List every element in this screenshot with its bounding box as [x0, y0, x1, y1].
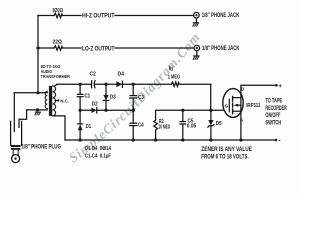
wire plug sleeve lead	[19, 110, 27, 128]
svg-text:C3: C3	[138, 95, 144, 101]
svg-text:D1: D1	[86, 124, 92, 130]
diode D4	[116, 81, 122, 87]
node D3 top	[104, 83, 107, 86]
node lo-z branch	[36, 46, 39, 49]
svg-text:D5: D5	[216, 121, 222, 127]
phone jack J2	[194, 45, 200, 51]
node middle rail end	[132, 109, 135, 112]
capacitor C5	[182, 110, 184, 121]
diode D1	[79, 110, 81, 124]
wire C2 to D4	[95, 83, 116, 85]
svg-text:1/8″ PHONE PLUG: 1/8″ PHONE PLUG	[22, 144, 62, 150]
svg-text:LO-Z OUTPUT: LO-Z OUTPUT	[82, 45, 115, 52]
svg-text:D1-D4 IN914: D1-D4 IN914	[85, 146, 111, 152]
N.C. tap	[55, 100, 58, 102]
phone plug collar	[11, 145, 20, 147]
node primary top	[36, 91, 39, 94]
svg-text:SWITCH: SWITCH	[265, 121, 281, 127]
ground under J1	[193, 22, 198, 24]
svg-text:C1-C4 0.1μF: C1-C4 0.1μF	[85, 154, 111, 160]
node D5 top	[209, 109, 212, 112]
svg-text:820Ω: 820Ω	[53, 8, 64, 14]
node ground tap	[36, 108, 39, 111]
svg-text:+: +	[278, 83, 282, 90]
wire lo-z right	[115, 47, 194, 49]
source stub	[233, 110, 241, 112]
ground under J2	[194, 55, 199, 57]
drain lead wire to +	[241, 85, 276, 111]
svg-text:C4: C4	[138, 123, 144, 129]
resistor R2	[154, 110, 158, 140]
svg-text:N.C.: N.C.	[60, 98, 69, 104]
svg-text:ON/OFF: ON/OFF	[265, 113, 280, 119]
phone plug neck	[13, 149, 18, 154]
svg-text:R1: R1	[169, 67, 174, 73]
svg-text:1 MEG: 1 MEG	[168, 75, 181, 81]
phone plug body	[11, 121, 22, 145]
node C3 top	[132, 83, 135, 86]
wire rail corner down to gate rail	[210, 84, 212, 110]
node D1 bottom	[79, 138, 82, 141]
top rail wire	[57, 83, 91, 85]
phone plug tip ball	[12, 155, 20, 163]
svg-text:1/8″ PHONE JACK: 1/8″ PHONE JACK	[202, 45, 240, 52]
left bus vertical wire	[37, 16, 39, 94]
svg-text:HI-Z OUTPUT: HI-Z OUTPUT	[82, 12, 115, 19]
svg-text:D4: D4	[118, 71, 125, 77]
node C5 bottom	[181, 138, 184, 141]
svg-text:C2: C2	[90, 72, 96, 78]
middle rail wire	[80, 109, 91, 111]
svg-text:D2: D2	[92, 101, 98, 107]
node C1 bottom	[79, 109, 82, 112]
resistor R1	[171, 82, 210, 86]
svg-text:TRANSFORMER: TRANSFORMER	[41, 74, 71, 80]
svg-text:D: D	[241, 86, 245, 91]
transformer T1 core	[49, 86, 52, 116]
phone jack J1	[194, 12, 200, 18]
svg-text:S: S	[240, 117, 243, 122]
wire D4 to R1	[122, 83, 171, 85]
capacitor C2	[91, 81, 93, 88]
svg-text:22Ω: 22Ω	[53, 39, 63, 45]
transformer T1 primary coil	[45, 91, 47, 108]
node C4 bottom	[132, 138, 135, 141]
body stub with arrow	[238, 104, 241, 106]
capacitor C4	[132, 110, 134, 123]
wire primary bottom lead	[27, 109, 48, 111]
gate bar	[228, 99, 230, 112]
node D3 bottom	[104, 109, 107, 112]
svg-text:RECORDER: RECORDER	[265, 106, 287, 112]
node + terminal	[275, 84, 278, 87]
resistor 820 ohm	[54, 13, 81, 17]
node C5 top	[181, 109, 184, 112]
wire hi-z right	[115, 15, 194, 17]
node D5 bottom	[209, 138, 212, 141]
svg-text:10 MEG: 10 MEG	[158, 125, 170, 131]
node source bottom	[239, 138, 242, 141]
wire secondary bottom lead	[54, 116, 65, 140]
diode D3	[105, 84, 107, 95]
svg-text:G: G	[225, 103, 229, 108]
svg-text:-: -	[278, 137, 280, 144]
node - terminal	[275, 139, 278, 142]
node C1 top	[79, 83, 82, 86]
zener diode D5	[210, 110, 212, 120]
mosfet Q1 IRF511	[223, 89, 243, 118]
svg-text:ZENER IS ANY VALUE: ZENER IS ANY VALUE	[201, 147, 252, 153]
chassis ground under primary	[35, 111, 40, 113]
capacitor C3	[132, 84, 134, 95]
svg-text:D3: D3	[110, 95, 116, 101]
svg-text:1/8″ PHONE JACK: 1/8″ PHONE JACK	[202, 12, 240, 19]
wire primary top lead	[14, 92, 47, 94]
svg-text:IRF511: IRF511	[246, 103, 260, 109]
diode D2	[91, 108, 96, 114]
capacitor C1	[79, 84, 81, 94]
svg-text:TO TAPE: TO TAPE	[265, 99, 282, 105]
svg-text:0.05: 0.05	[187, 124, 197, 130]
wire hi-z left	[38, 15, 54, 17]
source lead wire	[240, 111, 242, 140]
wire secondary top to rail	[55, 84, 57, 86]
gate rail wire	[156, 109, 223, 111]
node R2 bottom	[154, 138, 157, 141]
transformer T1 secondary coil	[53, 86, 56, 116]
svg-text:FROM 6 TO 18 VOLTS.: FROM 6 TO 18 VOLTS.	[201, 155, 249, 161]
svg-text:C1: C1	[84, 94, 90, 100]
resistor 22 ohm	[54, 46, 81, 50]
bottom rail wire	[65, 139, 276, 141]
drain stub	[233, 97, 241, 99]
channel dashes	[232, 96, 234, 113]
wire plug tip lead	[13, 93, 15, 132]
wire lo-z left	[38, 47, 54, 49]
